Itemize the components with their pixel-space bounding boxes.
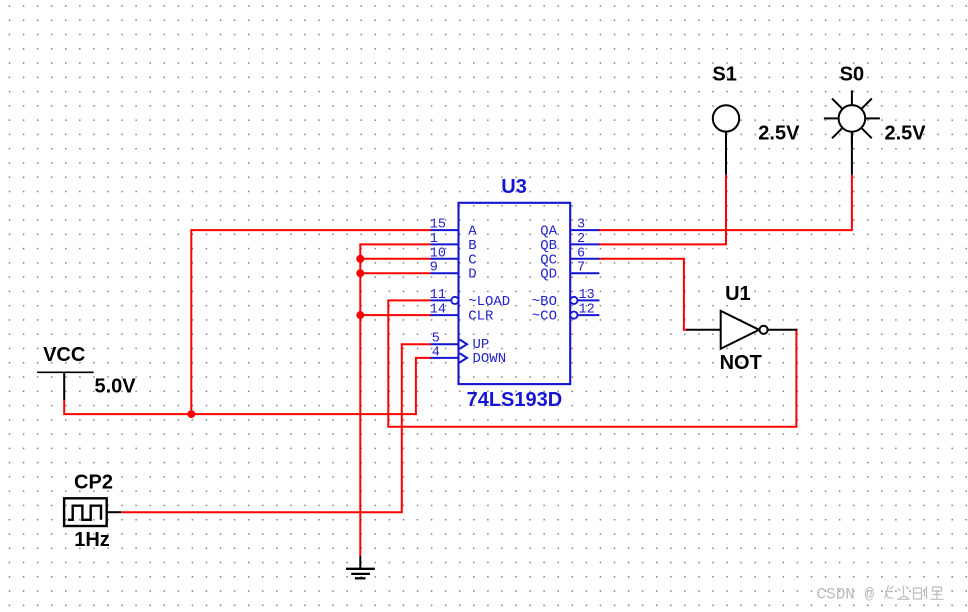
svg-text:74LS193D: 74LS193D	[467, 389, 563, 411]
probe S1	[712, 64, 800, 175]
svg-text:11: 11	[430, 288, 446, 303]
pin 4 DOWN	[430, 345, 506, 367]
svg-text:9: 9	[430, 261, 438, 276]
wire QC to NOT input	[599, 259, 688, 330]
pin 6 QC	[540, 246, 599, 268]
pin 3 QA	[540, 218, 599, 240]
svg-text:D: D	[468, 267, 476, 283]
lamp S0	[824, 64, 926, 175]
svg-text:DOWN: DOWN	[473, 351, 507, 367]
pin 7 QD	[540, 261, 599, 283]
svg-text:2.5V: 2.5V	[885, 122, 927, 144]
ground	[346, 556, 375, 578]
svg-text:CSDN @: CSDN @	[817, 586, 875, 604]
wire NOT output to pin 11 ~LOAD	[388, 300, 796, 426]
wire VCC net: vertical drop from VCC symbol	[63, 400, 65, 413]
svg-text:U3: U3	[501, 176, 527, 198]
svg-text:5.0V: 5.0V	[95, 375, 137, 397]
svg-text:~CO: ~CO	[532, 309, 557, 325]
pin 9 D	[430, 261, 477, 283]
IC U3 74LS193D	[459, 176, 571, 411]
svg-text:CP2: CP2	[74, 471, 113, 493]
chip body	[459, 203, 571, 384]
svg-text:4: 4	[432, 345, 440, 360]
wire VCC net: horizontal rail to DOWN pin riser	[63, 413, 416, 415]
junction ground/D	[356, 269, 364, 277]
svg-text:2.5V: 2.5V	[758, 122, 800, 144]
svg-text:14: 14	[430, 303, 446, 318]
junction ground/CLR	[356, 311, 364, 319]
svg-text:~LOAD: ~LOAD	[468, 294, 510, 310]
svg-text:QD: QD	[540, 267, 557, 283]
svg-text:CLR: CLR	[468, 309, 494, 325]
wire ground net: pin 1 B to ground riser	[360, 244, 431, 556]
watermark CSDN	[817, 586, 944, 604]
svg-text:7: 7	[577, 261, 585, 276]
pin 11 ~LOAD	[430, 288, 510, 310]
NOT gate U1	[687, 283, 798, 374]
svg-text:1: 1	[430, 232, 438, 247]
svg-text:12: 12	[579, 303, 595, 318]
pin 15 A	[430, 218, 477, 240]
pin 12 ~CO	[532, 303, 600, 325]
svg-text:2: 2	[577, 232, 585, 247]
svg-text:U1: U1	[725, 283, 751, 305]
svg-text:S1: S1	[712, 64, 736, 86]
wire QA to S0	[599, 175, 852, 230]
wire VCC net: riser to pin 4 DOWN	[416, 358, 431, 415]
wire QB to S1	[599, 175, 726, 245]
wire CP2 to pin 5 UP	[121, 344, 431, 512]
svg-text:S0: S0	[840, 64, 864, 86]
pin 13 ~BO	[532, 288, 600, 310]
svg-text:NOT: NOT	[720, 352, 762, 374]
clock source CP2	[64, 471, 121, 551]
wire ground net: branch to pin 14 CLR	[360, 314, 431, 316]
pin 10 C	[430, 246, 477, 268]
pin 5 UP	[430, 332, 489, 354]
svg-text:10: 10	[430, 246, 446, 261]
junction ground/C	[356, 255, 364, 263]
wire ground net: branch to pin 9 D	[360, 272, 431, 274]
pin 2 QB	[540, 232, 599, 254]
power VCC	[37, 344, 136, 400]
svg-text:6: 6	[577, 246, 585, 261]
wire ground net: branch to pin 10 C	[360, 258, 431, 260]
junction VCC/A	[187, 410, 195, 418]
svg-text:VCC: VCC	[43, 344, 85, 366]
svg-text:3: 3	[577, 218, 585, 233]
svg-text:13: 13	[579, 288, 595, 303]
svg-text:1Hz: 1Hz	[74, 529, 110, 551]
svg-text:~BO: ~BO	[532, 294, 557, 310]
pin 14 CLR	[430, 303, 494, 325]
wire VCC net: riser to pin 15 A	[191, 230, 431, 414]
pin 1 B	[430, 232, 477, 254]
svg-text:15: 15	[430, 218, 446, 233]
